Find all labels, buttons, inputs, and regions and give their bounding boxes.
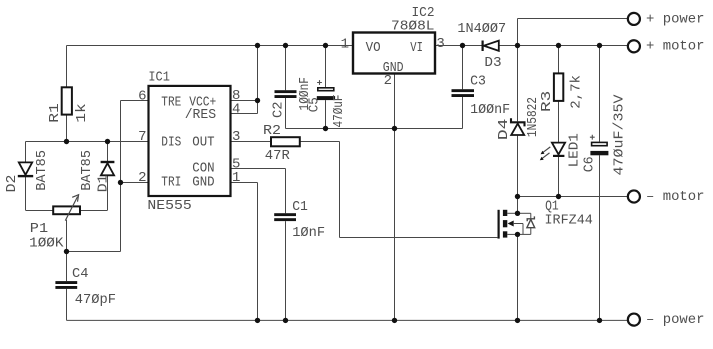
IC2 pin number 2 [384,73,392,89]
svg-text:D4: D4 [497,119,512,141]
node - motor terminal [628,189,705,205]
svg-text:C3: C3 [470,74,486,89]
IC1 pin name /RES [185,108,217,123]
diode D4 1N5822 schottky [497,46,541,197]
svg-text:GND: GND [192,176,214,191]
svg-text:1ØØK: 1ØØK [29,236,64,252]
svg-text:TRI: TRI [161,176,181,191]
svg-text:47R: 47R [265,149,290,164]
IC1 pin number 3 [232,129,240,145]
svg-text:C5: C5 [307,97,322,112]
wire VO rail (8V net) [67,45,354,47]
svg-text:+ motor: + motor [646,39,705,55]
IC2 pin label GND [383,61,404,76]
wire - power bottom rail [67,319,628,321]
IC2 pin number 1 [341,37,349,53]
svg-text:1k: 1k [74,103,90,123]
svg-text:– power: – power [646,312,705,328]
svg-text:P1: P1 [30,222,48,237]
svg-text:C4: C4 [72,267,89,282]
svg-text:BAT85: BAT85 [80,150,95,191]
svg-text:4: 4 [232,102,240,118]
svg-text:1N5822: 1N5822 [526,97,541,137]
wire pin 6 to pin 2 link with wiper [67,101,149,252]
wire - motor net [518,196,628,198]
IC1 pin number 6 [138,89,146,105]
svg-text:DIS: DIS [161,136,181,151]
svg-text:47ØuF/35V: 47ØuF/35V [612,94,628,176]
svg-text:R1: R1 [48,103,63,123]
wire DIS net (pin 7) [26,141,149,143]
capacitor C5 470uF electrolytic [307,46,347,129]
wire pin 5 CON to C1 [231,169,286,214]
svg-text:2: 2 [138,170,146,186]
svg-text:2: 2 [384,73,392,89]
wire + power feed [518,19,628,46]
wire regulator ground net [286,74,463,321]
wire pin 8 / pin 4 to VCC [231,46,258,114]
LED LED1 [540,133,583,196]
svg-text:1N4ØØ7: 1N4ØØ7 [457,21,506,37]
svg-text:1ØnF: 1ØnF [292,225,325,241]
svg-text:D2: D2 [5,175,20,193]
svg-text:C6: C6 [583,156,598,172]
resistor R3 2,7k [540,46,585,143]
svg-text:47ØpF: 47ØpF [75,292,116,308]
diode D2 BAT85 [5,142,50,211]
IC1 pin name CON [192,162,214,177]
svg-text:R2: R2 [263,124,281,139]
svg-text:OUT: OUT [192,136,214,151]
IC2 pin number 3 [436,36,444,52]
IC1 pin number 1 [232,170,240,186]
capacitor C4 470pF [55,252,116,321]
svg-text:CON: CON [192,162,214,177]
wire R2 to gate [300,142,498,238]
svg-text:/RES: /RES [185,108,217,123]
svg-text:78Ø8L: 78Ø8L [391,19,435,35]
svg-text:BAT85: BAT85 [35,150,50,191]
capacitor C1 10nF [274,200,325,320]
IC1 pin number 5 [232,156,240,172]
svg-text:1ØØnF: 1ØØnF [470,102,510,118]
svg-text:7: 7 [138,129,146,145]
IC1 pin name TRE [161,95,181,110]
IC1 pin name GND [192,176,214,191]
wire pin 3 OUT to R2 [231,141,272,143]
svg-text:LED1: LED1 [567,133,582,167]
svg-text:VO: VO [366,41,381,56]
svg-text:6: 6 [138,89,146,105]
svg-text:VI: VI [410,41,423,56]
svg-text:Q1: Q1 [545,200,559,215]
svg-text:IRFZ44: IRFZ44 [545,214,593,229]
node + motor terminal [628,39,705,55]
wire pin 1 GND to rail [231,183,258,321]
transistor Q1 IRFZ44 mosfet [499,197,593,321]
op-amp U1 timer IC1 NE555 box [147,71,230,215]
potentiometer P1 100K [26,195,108,252]
svg-text:D1: D1 [96,175,111,193]
resistor R2 47R [263,124,300,164]
svg-text:IC1: IC1 [148,71,170,86]
capacitor C2 100nF [272,46,313,129]
IC1 pin number 7 [138,129,146,145]
IC2 pin label VI [410,41,423,56]
svg-text:NE555: NE555 [147,199,191,214]
svg-text:TRE: TRE [161,95,181,110]
svg-text:3: 3 [436,36,444,52]
IC1 pin name VCC+ [189,95,216,110]
svg-text:C2: C2 [272,102,287,119]
svg-text:R3: R3 [540,91,555,112]
svg-text:1: 1 [341,37,349,53]
node - power terminal [628,312,705,328]
svg-text:2,7k: 2,7k [568,75,584,109]
diode D3 1N4007 [457,21,506,71]
IC1 pin number 4 [232,102,240,118]
resistor R1 [48,46,90,142]
svg-text:1: 1 [232,170,240,186]
IC1 pin name TRI [161,176,181,191]
svg-text:+ power: + power [646,11,705,27]
svg-text:47ØuF: 47ØuF [331,95,347,128]
diode D1 BAT85 [80,142,114,211]
capacitor C3 100nF [452,46,511,129]
IC1 pin number 8 [232,88,240,104]
IC1 pin name OUT [192,136,214,151]
node + power terminal [628,11,705,27]
voltage regulator IC2 7808L [353,6,435,74]
capacitor C6 470uF/35V electrolytic [583,46,628,321]
svg-text:3: 3 [232,129,240,145]
svg-text:D3: D3 [484,56,501,71]
IC1 pin name DIS [161,136,181,151]
svg-text:C1: C1 [292,200,308,215]
IC1 pin number 2 [138,170,146,186]
wire VI / + motor rail [435,45,628,47]
svg-text:– motor: – motor [646,189,705,205]
IC2 pin label VO [366,41,381,56]
